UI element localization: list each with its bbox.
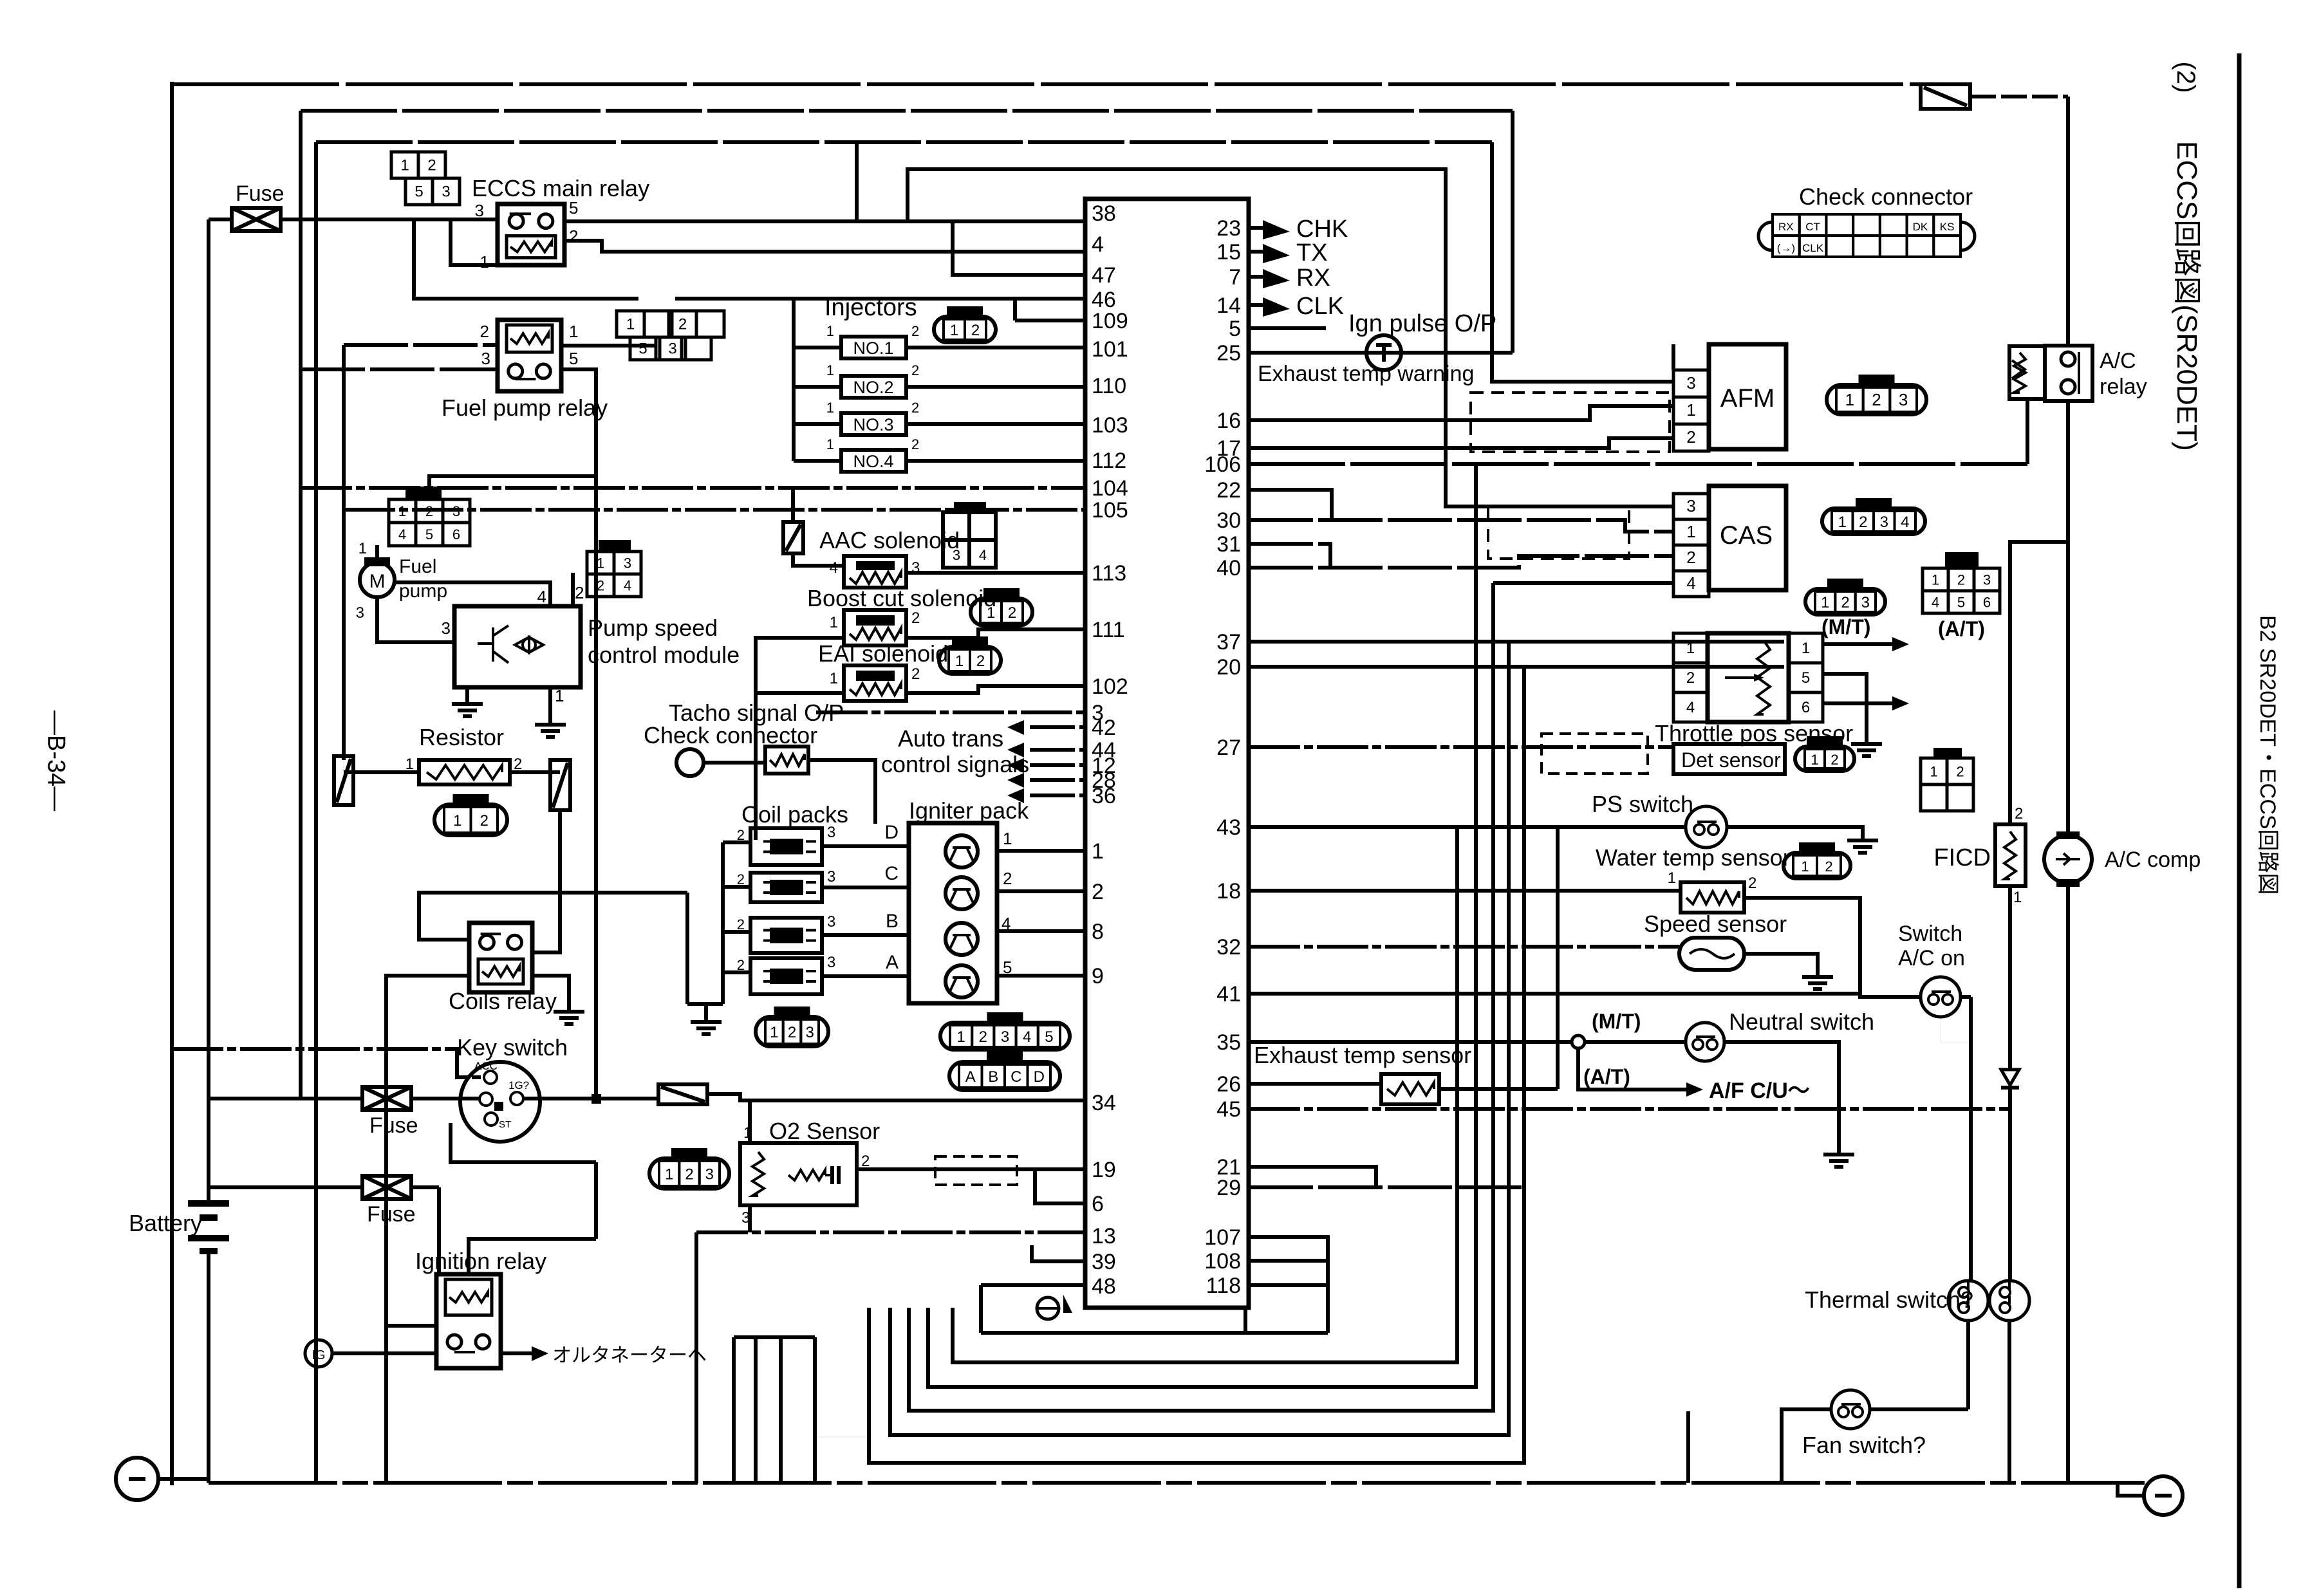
resistor check connector xyxy=(765,747,808,774)
diode to thermal switch xyxy=(2001,1070,2019,1085)
svg-text:2: 2 xyxy=(569,227,578,246)
wire: coil 4 to igniter A xyxy=(822,974,909,978)
svg-text:Pump speed: Pump speed xyxy=(588,615,718,641)
wire: pin stub CHK xyxy=(1249,226,1263,230)
solenoid EAI xyxy=(844,665,906,701)
circle IG indicator xyxy=(305,1340,332,1367)
connector igniter oval 1|2|3|4|5 xyxy=(940,1023,1070,1050)
wire: coil 1 left to bus xyxy=(723,840,750,844)
arrow TX xyxy=(1263,244,1290,263)
svg-text:3: 3 xyxy=(1899,390,1908,409)
wire: x926 key to relay segment xyxy=(594,1162,598,1239)
svg-text:1: 1 xyxy=(400,157,409,174)
coil pack 4 xyxy=(750,958,822,994)
switch thermal 1 xyxy=(1948,1281,1988,1321)
wire: pin25 to bus2 drop xyxy=(1249,351,1513,355)
wire: O2 pin3 down to 13 line xyxy=(748,1205,752,1232)
wire: fuel pump feed from connector xyxy=(429,476,596,499)
svg-text:3: 3 xyxy=(827,954,835,971)
ground: module pin1 xyxy=(548,714,552,725)
fusible link on pin34 line xyxy=(658,1084,707,1104)
wire: tacho to ECU pin3 xyxy=(816,710,1085,714)
svg-text:Igniter pack: Igniter pack xyxy=(909,797,1029,824)
wire: fuse2 line to key switch xyxy=(209,1097,362,1100)
sensor O2 box xyxy=(740,1143,857,1205)
svg-text:A: A xyxy=(886,952,899,973)
switch key switch circle xyxy=(460,1062,540,1142)
wire: ignition relay right to alternator xyxy=(501,1351,539,1355)
wire: injector NO.1 to ECU pin 101 xyxy=(906,346,1085,349)
wire: coil 3 to igniter B xyxy=(822,933,909,937)
wire: 46 feed continues to ECU xyxy=(675,297,1085,301)
svg-text:Fuse: Fuse xyxy=(367,1202,416,1227)
connector MT oval 1|2|3 xyxy=(1805,589,1885,615)
wire: loop bundle 2 xyxy=(928,465,1476,1387)
svg-text:3: 3 xyxy=(1686,496,1695,515)
svg-text:5: 5 xyxy=(425,526,433,543)
solenoid boost cut xyxy=(844,610,906,645)
wire: pin48 drop to underline xyxy=(979,1285,983,1333)
svg-text:2: 2 xyxy=(911,400,919,416)
svg-text:42: 42 xyxy=(1092,716,1116,740)
svg-text:1: 1 xyxy=(826,323,834,339)
svg-text:35: 35 xyxy=(1216,1030,1241,1055)
svg-text:2: 2 xyxy=(971,322,980,339)
sensor exhaust temp resistor xyxy=(1381,1074,1439,1104)
wire: pin45 long line xyxy=(1249,1107,2010,1111)
svg-text:PS switch: PS switch xyxy=(1592,791,1693,817)
svg-text:113: 113 xyxy=(1092,561,1126,586)
wire: fan switch left to rail xyxy=(1782,1409,1831,1483)
svg-text:Fuse: Fuse xyxy=(236,181,284,206)
wire: pin41 line xyxy=(1249,992,1860,996)
svg-text:48: 48 xyxy=(1092,1274,1116,1299)
switch A/C on circle xyxy=(1921,977,1961,1017)
connector 2x2 right xyxy=(1933,748,1962,759)
svg-text:2: 2 xyxy=(911,436,919,452)
svg-text:2: 2 xyxy=(861,1153,870,1170)
svg-text:14: 14 xyxy=(1216,293,1241,318)
svg-text:2: 2 xyxy=(1957,572,1965,588)
wire: ECU underline xyxy=(981,1308,1245,1333)
svg-text:5: 5 xyxy=(1229,317,1241,341)
svg-text:39: 39 xyxy=(1092,1250,1116,1274)
switch fan xyxy=(1831,1390,1870,1429)
svg-text:4: 4 xyxy=(830,559,838,577)
svg-text:1: 1 xyxy=(453,812,461,830)
svg-text:Check connector: Check connector xyxy=(644,722,817,748)
svg-text:2: 2 xyxy=(1686,669,1695,687)
coil pack 3 xyxy=(750,918,822,953)
svg-text:1: 1 xyxy=(955,653,964,670)
wire: thermal2 down to rail xyxy=(2008,1321,2011,1483)
svg-text:3: 3 xyxy=(953,547,960,563)
svg-text:Fan switch?: Fan switch? xyxy=(1802,1432,1926,1458)
svg-text:25: 25 xyxy=(1216,341,1241,366)
wire: ECCS relay pin2 to ECU pin4 xyxy=(564,241,1085,252)
svg-text:6: 6 xyxy=(452,526,460,543)
ground circle below ECU xyxy=(1037,1297,1059,1319)
AC relay link box xyxy=(2009,346,2045,399)
svg-text:IG: IG xyxy=(312,1348,325,1362)
ground: neutral switch xyxy=(1837,1144,1841,1155)
wire: bus2 y172 xyxy=(301,109,1513,113)
wire: EAI to ECU pin102 xyxy=(906,686,1085,693)
svg-text:3: 3 xyxy=(668,340,676,358)
svg-text:C: C xyxy=(1011,1068,1021,1086)
svg-text:1: 1 xyxy=(826,436,834,452)
wire: ECU pin105 long line xyxy=(344,508,1085,512)
connector det oval 1|2 xyxy=(1795,747,1854,771)
svg-text:A/F C/U〜: A/F C/U〜 xyxy=(1709,1079,1810,1103)
igniter transistor 3 xyxy=(946,923,978,955)
wire: top power bus B+ xyxy=(172,82,1921,86)
dashed harness box AFM xyxy=(1471,393,1670,452)
svg-text:1: 1 xyxy=(555,686,564,705)
wire: pin17 to AFM2 xyxy=(1249,438,1673,448)
wire: O2 pin1 up to 34 line xyxy=(748,1100,752,1143)
wire: link to ECU pin34 xyxy=(707,1094,1085,1100)
wire: pin21 jog xyxy=(1249,1167,1376,1187)
igniter transistor 4 xyxy=(946,965,978,997)
svg-text:(2): (2) xyxy=(2172,62,2200,93)
wire: auto trans signal pin 44 xyxy=(1030,748,1085,752)
svg-text:2: 2 xyxy=(2015,805,2023,822)
arrow auto trans pin 28 xyxy=(1007,773,1024,788)
wire: diode to AC relay drop xyxy=(1970,95,2068,98)
svg-text:Switch: Switch xyxy=(1898,922,1962,946)
svg-text:43: 43 xyxy=(1216,815,1241,840)
connector resistor oval 1|2 xyxy=(434,804,507,835)
svg-text:Fuse: Fuse xyxy=(369,1113,418,1138)
svg-text:109: 109 xyxy=(1092,309,1128,333)
connector boost cut oval 1|2 xyxy=(971,598,1032,626)
svg-text:2: 2 xyxy=(976,653,985,670)
svg-text:112: 112 xyxy=(1092,449,1126,473)
svg-text:3: 3 xyxy=(805,1024,814,1041)
svg-text:2: 2 xyxy=(1686,427,1695,447)
svg-text:2: 2 xyxy=(1841,594,1849,611)
injector NO.3 xyxy=(841,413,906,435)
svg-text:ECCS main relay: ECCS main relay xyxy=(472,175,649,201)
solenoid AAC xyxy=(844,556,906,588)
wire: injector NO.4 left xyxy=(794,459,841,463)
svg-text:2: 2 xyxy=(788,1024,796,1041)
ground: PS switch xyxy=(1861,830,1865,840)
switch PS xyxy=(1686,806,1727,848)
arrow auto trans pin 36 xyxy=(1007,788,1024,803)
svg-text:2: 2 xyxy=(575,583,584,602)
wire: boost cut left down x1174 xyxy=(756,638,844,840)
connector EAI oval 1|2 xyxy=(939,647,1001,674)
wire: drop x643 to injector/46 feed xyxy=(414,219,638,299)
AC relay box xyxy=(2045,346,2092,401)
connector AFM oval 1|2|3 xyxy=(1827,385,1926,414)
svg-text:Boost cut solenoid: Boost cut solenoid xyxy=(807,585,996,611)
svg-text:DK: DK xyxy=(1913,221,1928,233)
svg-text:TX: TX xyxy=(1296,239,1328,266)
svg-text:27: 27 xyxy=(1216,736,1241,760)
svg-text:41: 41 xyxy=(1216,982,1241,1007)
svg-text:101: 101 xyxy=(1092,337,1128,362)
svg-text:(A/T): (A/T) xyxy=(1938,617,1985,640)
fuse F2 (IGN) xyxy=(362,1087,411,1110)
svg-text:2: 2 xyxy=(1956,764,1964,780)
fuse F1 (main) xyxy=(232,208,281,231)
throttle sensor right pin column xyxy=(1789,633,1823,663)
wire: pin40 to CAS2 xyxy=(1249,556,1673,568)
ground: coils relay xyxy=(567,1001,571,1012)
svg-text:M: M xyxy=(369,571,386,592)
svg-text:4: 4 xyxy=(1023,1028,1031,1046)
svg-text:23: 23 xyxy=(1216,216,1241,241)
svg-text:(M/T): (M/T) xyxy=(1821,615,1870,638)
det sensor box xyxy=(1673,744,1785,774)
wire: loop bundle 5 xyxy=(869,667,1524,1463)
svg-text:Auto trans: Auto trans xyxy=(898,725,1003,752)
svg-text:1: 1 xyxy=(2013,889,2022,906)
wire: left riser x1140 xyxy=(732,1337,736,1483)
svg-text:22: 22 xyxy=(1216,478,1241,503)
svg-text:Exhaust temp warning: Exhaust temp warning xyxy=(1258,362,1474,386)
wire: resistor right to link x870 xyxy=(510,770,560,774)
wire: key switch right to link34 xyxy=(523,1097,658,1100)
AFM box xyxy=(1709,344,1786,449)
svg-text:Ignition relay: Ignition relay xyxy=(415,1248,546,1274)
wire: left riser x1213 xyxy=(779,1337,783,1483)
wire: IG circle to relay xyxy=(332,1351,436,1355)
svg-text:CLK: CLK xyxy=(1296,293,1344,320)
wire: coil 3 left to bus xyxy=(723,930,750,934)
wire: x1577 junction 46-109 xyxy=(1013,299,1017,320)
svg-text:3: 3 xyxy=(827,824,835,841)
connector check circle xyxy=(676,749,703,776)
svg-text:Battery: Battery xyxy=(129,1210,202,1236)
svg-text:3: 3 xyxy=(1686,373,1695,393)
CAS box xyxy=(1709,486,1786,590)
svg-text:CAS: CAS xyxy=(1720,521,1773,550)
svg-text:29: 29 xyxy=(1216,1176,1241,1200)
wire: vertical bus x534 xyxy=(342,345,346,760)
svg-text:Fuel pump relay: Fuel pump relay xyxy=(442,394,608,421)
svg-text:Ign pulse O/P: Ign pulse O/P xyxy=(1348,310,1496,337)
svg-text:1: 1 xyxy=(1838,514,1847,531)
relay K2 fuel pump relay xyxy=(498,320,561,391)
wire: injector NO.1 left xyxy=(794,346,841,349)
svg-text:9: 9 xyxy=(1092,964,1104,988)
wire: module pin2 up xyxy=(571,573,575,606)
svg-text:3: 3 xyxy=(442,618,451,638)
svg-text:2: 2 xyxy=(1825,858,1832,875)
wire: coil 1 to igniter D xyxy=(822,844,909,848)
wire: FICD down to diode xyxy=(2008,886,2012,1070)
svg-text:NO.2: NO.2 xyxy=(853,378,893,397)
connector ECCS main relay (1,2/5,3) xyxy=(391,152,418,178)
wire: pin37 line xyxy=(1249,640,1784,644)
IC ECU main box xyxy=(1085,199,1249,1308)
wire: vertical bus x491 xyxy=(314,142,318,1483)
wire: igniter output to ECU pin 1 xyxy=(997,849,1085,853)
connector AT grid 1,2,3/4,5,6 xyxy=(1945,552,1979,568)
wire: coil bus bottom to ground xyxy=(687,1004,706,1012)
coil pack 2 xyxy=(750,873,822,902)
wire: loop bundle 3 xyxy=(909,583,1493,1411)
svg-text:2: 2 xyxy=(1859,514,1867,531)
wire: injector left bus drop x1233 xyxy=(792,299,796,461)
svg-text:1: 1 xyxy=(1686,522,1695,541)
wire: throttle out1 arrow xyxy=(1823,642,1892,646)
svg-text:3: 3 xyxy=(1983,572,1991,588)
svg-text:5: 5 xyxy=(415,183,423,201)
ground: throttle xyxy=(1865,734,1868,744)
svg-text:32: 32 xyxy=(1216,935,1241,960)
wire: loop bundle 1 xyxy=(953,827,1457,1362)
svg-text:Key switch: Key switch xyxy=(457,1034,568,1061)
wire: module left ground stub xyxy=(465,687,469,694)
svg-text:3: 3 xyxy=(481,349,490,368)
svg-text:106: 106 xyxy=(1204,452,1241,477)
junction MT/AT circle xyxy=(1572,1035,1585,1048)
svg-text:ST: ST xyxy=(499,1119,511,1130)
ground: speed sensor xyxy=(1816,967,1820,977)
svg-text:D: D xyxy=(884,822,899,843)
wire: ECCS relay pin5 to ECU pin38 xyxy=(564,219,1085,223)
wire: pin22 joins pin30 xyxy=(1249,490,1332,520)
svg-text:5: 5 xyxy=(569,349,578,368)
svg-text:104: 104 xyxy=(1092,476,1128,501)
wire: ignition relay top to x926 xyxy=(469,1239,596,1274)
wire: igniter output to ECU pin 8 xyxy=(997,929,1085,933)
wire: pin32 to speed sensor xyxy=(1249,945,1679,949)
svg-text:1: 1 xyxy=(1686,400,1695,420)
svg-text:1: 1 xyxy=(359,540,367,557)
svg-text:2: 2 xyxy=(911,665,920,683)
svg-text:1: 1 xyxy=(956,1028,965,1046)
svg-text:1: 1 xyxy=(597,555,604,571)
svg-text:control signals: control signals xyxy=(881,751,1029,777)
wire: PS to ground xyxy=(1727,827,1863,830)
svg-text:1: 1 xyxy=(405,756,414,773)
wire: thermal1 down to fan line xyxy=(1966,1321,1970,1409)
svg-text:B: B xyxy=(886,911,899,932)
svg-text:107: 107 xyxy=(1204,1225,1241,1250)
wire: ECU pin13 line xyxy=(696,1230,1085,1234)
svg-text:—B-34—: —B-34— xyxy=(42,710,70,811)
svg-text:CHK: CHK xyxy=(1296,216,1348,243)
svg-text:A/C: A/C xyxy=(2100,349,2136,373)
svg-text:31: 31 xyxy=(1216,532,1241,557)
svg-text:1: 1 xyxy=(826,400,834,416)
wire: EAI left to x1174 xyxy=(756,691,844,695)
svg-text:1: 1 xyxy=(626,316,635,333)
terminal battery positive circle xyxy=(116,1458,158,1500)
svg-text:3: 3 xyxy=(475,201,484,220)
injector NO.4 xyxy=(841,450,906,472)
svg-text:2: 2 xyxy=(1008,604,1016,622)
svg-text:(M/T): (M/T) xyxy=(1592,1010,1641,1033)
svg-text:Coils relay: Coils relay xyxy=(449,988,557,1014)
svg-text:NO.1: NO.1 xyxy=(853,339,893,358)
svg-text:CT: CT xyxy=(1805,221,1820,233)
svg-text:110: 110 xyxy=(1092,374,1126,398)
wire: neutral ground riser x2623 xyxy=(1686,1411,1690,1483)
svg-text:3: 3 xyxy=(827,868,835,886)
module pump speed control box xyxy=(454,606,581,687)
connector AAC 4pin round xyxy=(954,502,986,514)
svg-text:5: 5 xyxy=(1957,595,1965,611)
connector CAS oval 1|2|3|4 xyxy=(1822,508,1925,534)
svg-text:5: 5 xyxy=(638,340,647,358)
diode top right xyxy=(1921,84,1970,109)
svg-text:34: 34 xyxy=(1092,1091,1116,1115)
svg-text:RX: RX xyxy=(1296,264,1330,292)
svg-text:1: 1 xyxy=(569,322,578,341)
wire: throttle out6 arrow xyxy=(1823,701,1892,705)
wire: coil 4 left to bus xyxy=(723,970,750,974)
wire: top line D to CAS3 xyxy=(908,169,1673,506)
wire: injector NO.4 to ECU pin 112 xyxy=(906,459,1085,463)
svg-text:2: 2 xyxy=(480,812,489,830)
svg-text:1: 1 xyxy=(770,1024,778,1041)
wire: left risers to rail x1082 xyxy=(694,1232,698,1483)
wire: diode down to thermal xyxy=(2008,1088,2012,1281)
wire: boost cut to ECU pin111 xyxy=(906,629,1085,638)
wire: AC comp down to rail xyxy=(2066,883,2070,1483)
wire: pin43 to PS switch xyxy=(1249,825,1686,829)
svg-text:40: 40 xyxy=(1216,556,1241,580)
wire: pin107 loop xyxy=(1249,1237,1328,1333)
wire: module pin1 to ground xyxy=(548,687,552,714)
svg-text:111: 111 xyxy=(1092,618,1125,642)
svg-text:2: 2 xyxy=(685,1166,693,1183)
svg-text:1: 1 xyxy=(1845,390,1854,409)
svg-text:1: 1 xyxy=(1003,829,1012,848)
svg-text:CLK: CLK xyxy=(1802,242,1824,254)
page divider line right xyxy=(2237,53,2242,1588)
wire: auto trans signal pin 12 xyxy=(1030,763,1085,767)
wire: igniter output to ECU pin 9 xyxy=(997,974,1085,978)
svg-text:1: 1 xyxy=(1092,839,1104,864)
wire: rail to right terminal xyxy=(2068,1483,2144,1496)
wire: switch AC down xyxy=(1941,1017,1971,1281)
svg-text:3: 3 xyxy=(705,1166,714,1183)
svg-text:1: 1 xyxy=(1802,640,1810,657)
wire: pin27 to det sensor xyxy=(1249,745,1673,749)
svg-text:6: 6 xyxy=(1802,699,1810,716)
wire: battery feed to fuse/ECCS relay y341 xyxy=(209,218,232,221)
wire: water temp right xyxy=(1744,898,1921,997)
wire: pin108 loop xyxy=(1249,1259,1328,1263)
wire: auto trans signal pin 28 xyxy=(1030,778,1085,782)
svg-text:3: 3 xyxy=(827,913,835,931)
svg-text:A/C on: A/C on xyxy=(1898,946,1965,970)
wire: 107 block join underline xyxy=(1245,1331,1328,1335)
wire: fuse3 to ignition relay xyxy=(437,1187,441,1274)
svg-text:Check connector: Check connector xyxy=(1799,183,1973,210)
wire: junction x1331 bus3 to pin38 wire xyxy=(855,142,859,221)
wire: pin26 line xyxy=(1249,1082,1381,1086)
wire: pin stub TX xyxy=(1249,250,1263,254)
wire: ignition relay left down xyxy=(386,1324,436,1328)
svg-text:2: 2 xyxy=(1003,869,1012,888)
coil pack 1 xyxy=(750,828,822,865)
wire: pin stub CLK xyxy=(1249,303,1263,307)
connector check grid xyxy=(1758,222,1773,250)
relay K3 coils relay xyxy=(469,923,532,992)
wire: coils relay feed to coilpack bus xyxy=(419,893,687,940)
svg-text:7: 7 xyxy=(1229,265,1241,290)
throttle sensor body xyxy=(1708,633,1789,722)
